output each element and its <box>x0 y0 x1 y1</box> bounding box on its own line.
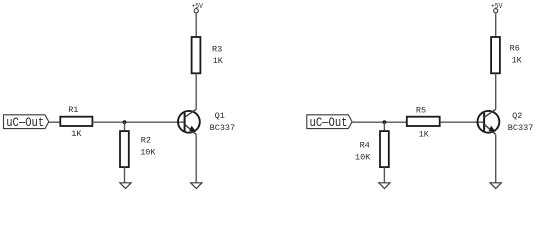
transistor Q1 BC337 <box>178 109 235 134</box>
resistor R6 1K <box>491 37 523 73</box>
wire power to R3 <box>195 13 197 37</box>
wire R1 to Q1 base <box>92 121 184 123</box>
wire R5 to Q2 base <box>440 121 484 123</box>
wire Q1 emitter to ground <box>195 135 197 183</box>
svg-text:uC—Out: uC—Out <box>6 115 44 130</box>
svg-text:1K: 1K <box>419 129 430 139</box>
svg-text:R5: R5 <box>416 105 426 115</box>
svg-text:1K: 1K <box>512 56 523 66</box>
wire R2 to ground <box>124 167 126 183</box>
uC-Out label tag (right) <box>307 115 352 130</box>
resistor R3 1K <box>192 37 224 73</box>
svg-text:BC337: BC337 <box>210 123 236 133</box>
wire junction to R2 <box>124 122 126 131</box>
resistor R2 10K <box>120 131 156 167</box>
junction node (R2 tap) <box>123 120 127 124</box>
junction node (R4 tap) <box>383 120 387 124</box>
svg-text:10K: 10K <box>355 152 371 162</box>
wire tag to R1 <box>49 121 61 123</box>
ground (below R4) <box>379 183 390 189</box>
resistor R5 1K <box>407 105 440 139</box>
svg-text:10K: 10K <box>140 147 156 157</box>
power +5V symbol P2 <box>491 3 503 13</box>
svg-text:BC337: BC337 <box>508 123 534 133</box>
svg-text:R3: R3 <box>212 44 222 54</box>
wire junction to R4 <box>383 122 385 131</box>
ground (below R2) <box>120 183 131 189</box>
wire Q2 emitter to ground <box>495 135 497 183</box>
wire R4 to ground <box>383 167 385 183</box>
wire R3 to Q1 collector <box>195 73 197 109</box>
svg-text:R6: R6 <box>510 43 520 53</box>
resistor R4 10K <box>355 131 389 167</box>
wire power to R6 <box>495 13 497 37</box>
transistor Q2 BC337 <box>478 109 534 134</box>
svg-text:R1: R1 <box>68 105 78 115</box>
svg-text:1K: 1K <box>71 129 82 139</box>
svg-text:1K: 1K <box>213 56 224 66</box>
svg-text:uC—Out: uC—Out <box>310 115 348 130</box>
svg-text:R2: R2 <box>141 136 151 146</box>
svg-text:R4: R4 <box>360 140 370 150</box>
svg-text:Q1: Q1 <box>215 111 225 121</box>
uC-Out label tag (left) <box>4 115 49 130</box>
svg-text:Q2: Q2 <box>512 111 522 121</box>
ground (below Q2) <box>490 183 501 189</box>
wire R6 to Q2 collector <box>495 73 497 109</box>
ground (below Q1) <box>191 183 202 189</box>
resistor R1 1K <box>60 105 92 139</box>
wire tag to R5 (through junction) <box>352 121 407 123</box>
power +5V symbol P1 <box>192 3 204 13</box>
